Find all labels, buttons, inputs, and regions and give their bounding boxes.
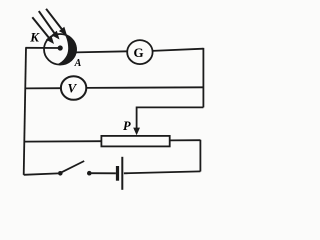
wire: V row right [86,86,203,89]
wire: bottom right [124,171,200,173]
wire: battery to switch [91,172,116,174]
wire: wiper horizontal [137,106,204,108]
battery negative plate (short) [116,166,119,181]
wire: bottom left [24,173,59,174]
voltmeter V [61,76,86,100]
wire: pot row left [25,140,102,142]
wire: left vertical [24,47,26,174]
svg-text:V: V [67,80,77,95]
wire: G to right vertical [153,49,204,51]
wire: pot right terminal [170,139,201,141]
light ray 1 [32,17,54,44]
cathode plate (crescent) [57,35,77,65]
light ray 2 [39,11,60,39]
svg-text:G: G [133,45,143,60]
anode dot [58,45,63,50]
wiper arrow of potentiometer [133,107,140,136]
potentiometer body R [101,136,169,147]
wire: top-left to anode [26,47,61,49]
wire: right vertical upper [202,48,204,108]
switch lever [61,161,84,173]
svg-text:A: A [74,58,82,69]
wire: V row left [25,87,61,89]
svg-text:K: K [29,30,40,45]
phototube envelope [44,34,76,65]
battery positive plate (long) [121,157,123,190]
wire: right vertical lower [199,140,201,172]
switch left contact [58,171,63,176]
light ray 3 [46,9,67,36]
galvanometer G [127,40,152,64]
switch right contact [87,171,92,176]
wire: tube to G [76,51,128,52]
svg-text:P: P [123,119,131,133]
